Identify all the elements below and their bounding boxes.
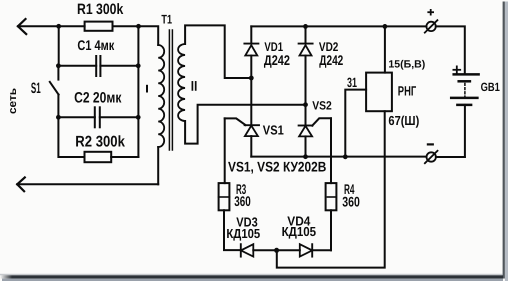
svg-text:РНГ: РНГ: [398, 83, 417, 98]
node VD2-VS2 dot: [303, 102, 308, 107]
switch S1: [57, 66, 59, 80]
svg-text:T1: T1: [161, 12, 172, 26]
wire minus bus: [251, 156, 426, 158]
terminal minus circle: [427, 152, 436, 161]
wire top bus: [251, 25, 426, 27]
wire R4 top to VS2 gate: [330, 118, 332, 183]
svg-text:КД105: КД105: [226, 226, 260, 241]
wire right vertical node B down: [137, 26, 139, 157]
resistor R4: [326, 183, 337, 210]
page border right: [503, 2, 505, 279]
node VS2 anode dot: [303, 154, 308, 159]
node C2 left dot: [56, 115, 61, 120]
wire R2 right: [111, 156, 138, 158]
wire secondary bottom link: [185, 105, 305, 144]
wire battery bottom to minus terminal: [436, 156, 465, 158]
svg-text:15(Б,В): 15(Б,В): [388, 59, 425, 71]
terminal plus circle: [426, 22, 435, 31]
wire plus terminal to battery: [436, 26, 465, 74]
diode VD1: [250, 26, 252, 43]
svg-text:Д242: Д242: [264, 52, 290, 68]
wire 31 link: [345, 90, 366, 157]
transformer T1 primary winding I: [158, 45, 164, 147]
node C2 right dot: [136, 115, 141, 120]
label I: [146, 86, 148, 92]
wire VS2 gate: [312, 118, 331, 125]
svg-text:С1 4мк: С1 4мк: [77, 37, 115, 53]
wire RNG bottom pin to VD3-VD4 node: [277, 111, 385, 267]
wire secondary top to VD1 anode: [185, 25, 251, 78]
node VD3-VD4 dot: [274, 248, 279, 253]
node B dot: [136, 24, 141, 29]
node VD1-VS1 dot: [249, 76, 254, 81]
wire node A down: [58, 26, 60, 66]
node A dot: [56, 24, 61, 29]
thyristor VS1: [250, 78, 252, 125]
node RNG top dot: [383, 24, 388, 29]
transformer secondary winding II: [178, 44, 185, 121]
node 31 junction dot: [343, 154, 348, 159]
label minus: [428, 143, 433, 145]
diode VD3: [240, 244, 242, 256]
diode VD4: [300, 244, 312, 256]
regulator RNG box: [366, 73, 392, 112]
wire R2 loop left: [58, 117, 84, 157]
wire R3 bottom: [224, 210, 241, 250]
thyristor VS2: [305, 105, 307, 126]
svg-text:360: 360: [234, 193, 251, 209]
diode VD2: [305, 26, 307, 43]
svg-text:сеть: сеть: [7, 88, 19, 114]
svg-text:VS1, VS2 КУ202В: VS1, VS2 КУ202В: [228, 159, 326, 175]
svg-text:КД105: КД105: [282, 224, 317, 239]
node C1 left dot: [56, 63, 61, 68]
node C1 right dot: [136, 63, 141, 68]
capacitor C2: [58, 116, 94, 118]
wire VS1 gate: [225, 118, 246, 125]
wire bottom mains with arrow: [17, 183, 158, 185]
label plus battery: [453, 69, 460, 71]
battery GB1: [454, 73, 479, 76]
svg-text:С2 20мк: С2 20мк: [74, 90, 122, 107]
resistor R2: [85, 152, 112, 162]
wire top mains with arrow: [18, 25, 85, 27]
svg-text:R1 300k: R1 300k: [77, 1, 124, 18]
label II: [191, 82, 193, 90]
svg-text:GB1: GB1: [481, 80, 500, 94]
capacitor C1: [58, 65, 96, 67]
wire node B to primary top: [139, 26, 159, 45]
wire VS1 gate to R3: [224, 118, 226, 183]
transformer core: [168, 30, 170, 150]
node VD2 top dot: [303, 24, 308, 29]
svg-text:S1: S1: [31, 80, 41, 97]
svg-text:360: 360: [342, 193, 360, 209]
wire VD4 to R4: [330, 210, 332, 250]
resistor R3: [219, 183, 230, 210]
svg-text:VS2: VS2: [312, 98, 332, 112]
svg-text:31: 31: [347, 75, 357, 90]
svg-text:Д242: Д242: [319, 52, 343, 68]
resistor R1: [85, 22, 113, 31]
label plus top: [428, 11, 433, 13]
svg-text:67(Ш): 67(Ш): [388, 113, 419, 128]
svg-text:R2 300k: R2 300k: [75, 133, 125, 150]
wire RNG top pin: [384, 26, 386, 72]
wire R1 to node B: [113, 25, 139, 27]
wire primary bottom: [157, 147, 159, 184]
svg-text:VS1: VS1: [263, 123, 284, 138]
